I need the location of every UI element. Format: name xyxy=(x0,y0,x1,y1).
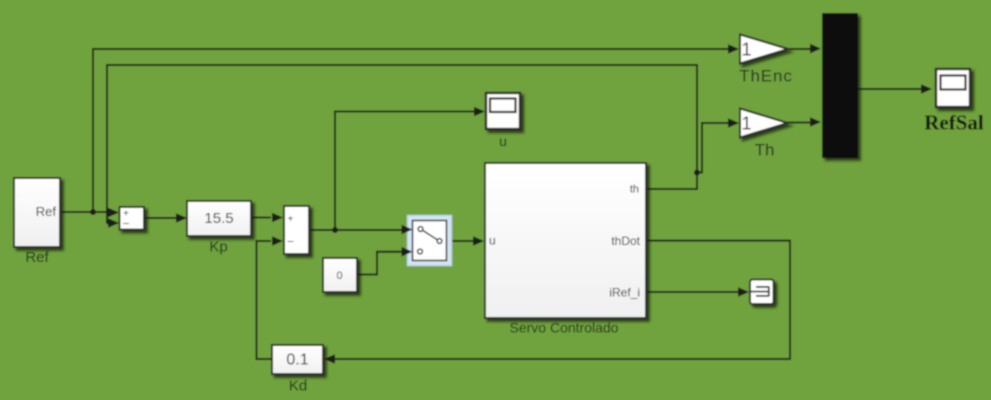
mux (black bar) xyxy=(822,13,858,158)
arrow into Switch top xyxy=(402,225,413,235)
wire Ref branch up to ThEnc xyxy=(93,49,730,212)
arrow into Kd (points left) xyxy=(324,354,335,364)
wire Ref to Sum1 xyxy=(60,211,112,213)
svg-text:thDot: thDot xyxy=(611,234,640,248)
wire Kd to Sum2 minus xyxy=(257,241,273,359)
arrowheads xyxy=(108,44,932,364)
arrow into scope u xyxy=(474,107,485,117)
record block iRef_i xyxy=(750,280,774,305)
gain Kp 15.5 xyxy=(187,201,251,236)
wire Mux to RefSal xyxy=(858,88,922,90)
wire th feedback to Sum1 minus xyxy=(107,65,697,223)
svg-text:1: 1 xyxy=(741,114,751,134)
subsystem Servo Controlado xyxy=(485,163,646,318)
arrow into Sum1 minus xyxy=(108,218,119,228)
gain Th xyxy=(740,109,788,138)
wire thDot to Kd xyxy=(333,241,790,359)
node junction scope branch xyxy=(332,227,338,233)
wire th branch to Th gain xyxy=(697,123,729,173)
source block Ref xyxy=(14,178,60,247)
arrow into Mux from ThEnc xyxy=(810,44,821,54)
arrow into Kp xyxy=(176,213,187,223)
arrow into Sum1 plus xyxy=(108,208,119,218)
arrow into RefSal xyxy=(921,84,932,94)
wire Kp to Sum2 plus xyxy=(251,217,271,219)
gain ThEnc xyxy=(740,35,788,64)
svg-text:Kp: Kp xyxy=(209,239,227,256)
wire Constant0 to Switch bottom input xyxy=(357,252,404,275)
arrow into Sum2 minus xyxy=(272,236,283,246)
wire Sum2 to Switch top input xyxy=(309,229,404,231)
scope u xyxy=(486,93,520,129)
svg-text:−: − xyxy=(287,235,294,249)
arrow into ThEnc xyxy=(728,44,739,54)
manual switch (selected, blue halo) xyxy=(402,216,452,266)
arrow into Servo u xyxy=(473,236,484,246)
svg-text:u: u xyxy=(499,133,507,149)
svg-text:1: 1 xyxy=(741,40,751,60)
wire Sum1 to Kp xyxy=(144,217,178,219)
sum S2 xyxy=(284,206,309,254)
svg-text:RefSal: RefSal xyxy=(924,111,984,135)
svg-text:iRef_i: iRef_i xyxy=(609,286,640,300)
wire Th to Mux xyxy=(786,122,813,124)
svg-text:Ref: Ref xyxy=(25,249,49,266)
svg-text:15.5: 15.5 xyxy=(204,210,233,227)
arrow into Th xyxy=(728,118,739,128)
svg-text:Kd: Kd xyxy=(289,378,307,395)
svg-text:+: + xyxy=(288,214,294,225)
node junction at Ref output xyxy=(90,209,96,215)
svg-text:ThEnc: ThEnc xyxy=(739,67,793,86)
wire ThEnc to Mux xyxy=(786,48,813,50)
arrow into Mux from Th xyxy=(810,117,821,127)
node junction th branch xyxy=(694,170,700,176)
arrow into record block xyxy=(738,287,749,297)
gain Kd 0.1 xyxy=(272,345,323,374)
svg-text:Ref: Ref xyxy=(36,204,57,219)
svg-text:0.1: 0.1 xyxy=(286,352,308,369)
scope RefSal xyxy=(936,69,970,107)
svg-text:th: th xyxy=(630,184,639,196)
svg-text:u: u xyxy=(489,234,496,248)
svg-text:Servo Controlado: Servo Controlado xyxy=(510,320,619,336)
wire Switch to Servo input u xyxy=(447,240,475,242)
arrow into Sum2 plus xyxy=(272,213,283,223)
arrow into Switch bottom xyxy=(402,247,413,257)
svg-text:0: 0 xyxy=(336,270,342,282)
constant 0 xyxy=(323,258,357,292)
svg-text:Th: Th xyxy=(755,141,775,160)
sum S1 xyxy=(120,207,145,231)
wire branch up to scope u xyxy=(335,112,475,231)
wire iRef_i to record block xyxy=(646,291,741,293)
svg-text:−: − xyxy=(123,217,130,231)
